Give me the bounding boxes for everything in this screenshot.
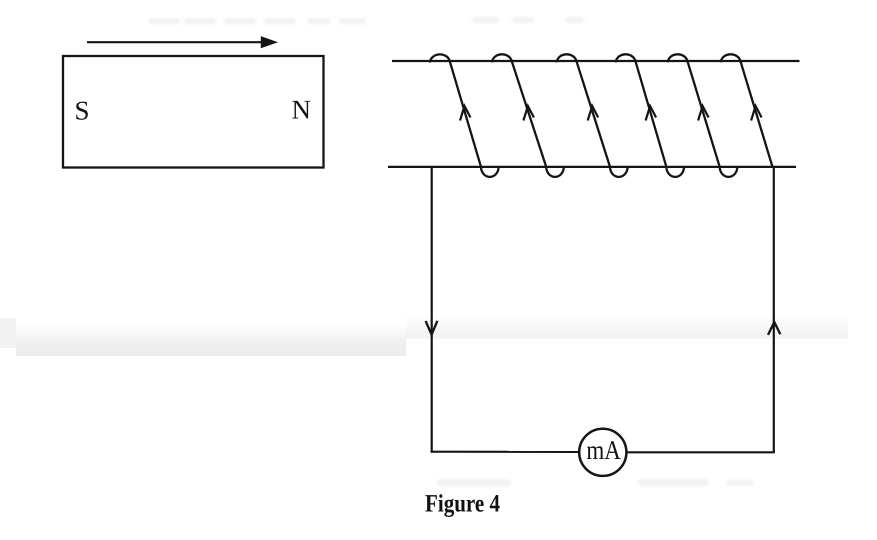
coil turn 5: bottom arc	[720, 167, 738, 177]
milliammeter mA	[579, 429, 626, 476]
coil turn 2: front wire	[512, 61, 546, 167]
coil bottom rail	[388, 166, 796, 168]
coil turn 1: bottom arc	[481, 167, 499, 177]
coil top rail	[392, 60, 800, 62]
coil turn 4: bottom arc	[666, 167, 684, 177]
coil turn 4: current arrow	[646, 106, 657, 121]
svg-text:mA: mA	[586, 435, 621, 465]
coil turn 4: top arc	[616, 54, 636, 62]
coil turn 6: current arrow	[751, 106, 762, 121]
scan artifact: faint gray band	[0, 315, 848, 356]
coil turn 3: current arrow	[588, 106, 599, 121]
svg-text:Figure 4: Figure 4	[425, 491, 500, 518]
scan artifact: faint top smudges	[149, 17, 754, 486]
motion arrow above magnet	[87, 37, 277, 48]
bottom circuit wire, right segment	[626, 451, 775, 453]
coil turn 5: front wire	[688, 61, 720, 167]
left circuit wire (vertical)	[431, 167, 433, 453]
coil turn 2: bottom arc	[546, 167, 564, 177]
coil turn 4: front wire	[636, 61, 667, 167]
coil turn 5: current arrow	[698, 106, 709, 121]
bottom circuit wire, left segment	[431, 451, 580, 453]
coil turn 2: current arrow	[523, 106, 534, 121]
left wire current arrow (down)	[426, 321, 438, 335]
svg-text:N: N	[292, 95, 312, 125]
coil turn 5: top arc	[668, 54, 688, 62]
coil turn 1: front wire	[450, 61, 481, 167]
coil turn 6: top arc	[721, 54, 741, 62]
coil turn 1: current arrow	[460, 106, 471, 121]
svg-text:S: S	[75, 96, 90, 126]
right circuit wire (vertical)	[773, 166, 775, 452]
coil turn 3: front wire	[577, 61, 611, 167]
coil turn 3: top arc	[557, 54, 577, 62]
coil turn 6: front wire	[741, 61, 773, 167]
right wire current arrow (up)	[768, 322, 780, 335]
coil turn 1: top arc	[430, 54, 450, 62]
coil turn 2: top arc	[492, 54, 512, 62]
bar magnet	[63, 56, 324, 168]
coil turn 3: bottom arc	[610, 167, 628, 177]
